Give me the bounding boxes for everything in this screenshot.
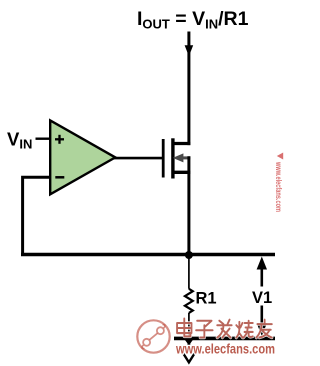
resistor R1 [185,255,193,337]
channel bar [171,138,174,178]
body arrowhead [173,153,184,162]
watermark vertical url right edge [274,153,284,213]
body stem [183,156,191,159]
wire feedback from - input down to bottom node [23,177,51,254]
gate bar [162,139,165,178]
drain stub [173,142,190,145]
junction dot [185,251,193,259]
source stub [173,171,190,174]
wire VIN to + input [36,137,51,139]
svg-text:www.elecfans.com: www.elecfans.com [274,161,284,212]
wire op-amp output to gate [113,157,163,160]
watermark logo [137,320,169,352]
svg-text:R1: R1 [196,290,217,308]
svg-text:IOUT = VIN/R1: IOUT = VIN/R1 [137,8,249,32]
svg-text:VIN: VIN [7,129,32,152]
svg-text:www.elecfans.com: www.elecfans.com [175,342,275,357]
svg-text:V1: V1 [252,289,272,307]
wire source down to node [187,156,190,257]
wire drain vertical [187,32,190,146]
V1 annotation arrow up [257,257,267,287]
ground [181,339,197,362]
watermark chinese text 电子发烧友 (white halo pass) [177,319,272,338]
wire bottom horizontal [174,337,275,341]
current direction arrowhead [185,45,194,56]
V1 annotation arrow down [257,306,267,337]
wire mid horizontal [21,253,275,257]
op-amp U1 [50,120,115,194]
transistor M1 (NMOS) [163,138,190,178]
watermark chinese text 电子发烧友 (red pass) [177,319,272,338]
